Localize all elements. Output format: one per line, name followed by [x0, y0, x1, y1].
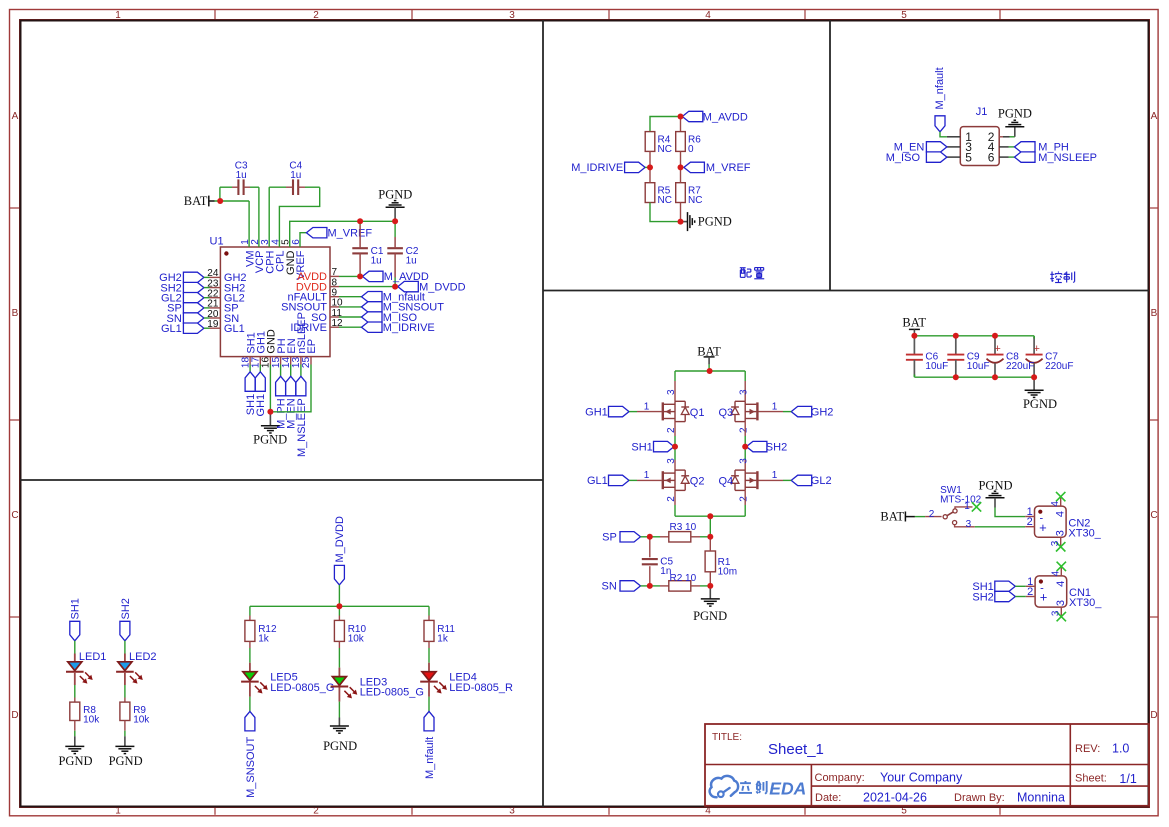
svg-text:REV:: REV: [1075, 743, 1100, 755]
svg-text:+: + [1039, 520, 1047, 535]
svg-text:10k: 10k [83, 715, 100, 726]
svg-text:1: 1 [772, 470, 778, 481]
svg-text:1: 1 [772, 401, 778, 412]
svg-text:R2 10: R2 10 [670, 573, 697, 584]
svg-text:1k: 1k [437, 633, 449, 644]
svg-text:1.0: 1.0 [1112, 742, 1129, 756]
svg-text:R3 10: R3 10 [670, 522, 697, 533]
svg-text:D: D [1150, 710, 1157, 721]
svg-text:PGND: PGND [978, 478, 1012, 492]
svg-text:0: 0 [688, 144, 694, 155]
svg-text:GH2: GH2 [811, 406, 834, 418]
svg-text:6: 6 [988, 150, 995, 164]
svg-text:BAT: BAT [184, 194, 208, 208]
svg-text:PGND: PGND [698, 215, 732, 229]
svg-text:6: 6 [291, 239, 302, 245]
svg-text:M_DVDD: M_DVDD [419, 281, 466, 293]
svg-text:5: 5 [965, 150, 972, 164]
svg-text:M_NSLEEP: M_NSLEEP [1038, 152, 1097, 164]
svg-text:3: 3 [738, 458, 749, 464]
svg-text:NC: NC [658, 144, 672, 155]
svg-text:XT30_: XT30_ [1068, 527, 1101, 539]
svg-text:NC: NC [658, 195, 672, 206]
svg-text:10uF: 10uF [967, 361, 990, 372]
svg-text:B: B [12, 308, 19, 319]
svg-text:GH1: GH1 [255, 394, 267, 417]
svg-text:PGND: PGND [253, 433, 287, 447]
svg-text:3: 3 [1055, 600, 1067, 606]
svg-text:M_SNSOUT: M_SNSOUT [245, 737, 257, 798]
svg-text:M_IDRIVE: M_IDRIVE [571, 162, 623, 174]
svg-text:3: 3 [1050, 540, 1061, 546]
svg-text:+: + [994, 343, 1000, 355]
svg-text:C: C [1150, 510, 1157, 521]
svg-text:M_IDRIVE: M_IDRIVE [383, 322, 435, 334]
svg-text:10uF: 10uF [925, 361, 948, 372]
svg-text:M_NSLEEP: M_NSLEEP [296, 398, 308, 457]
svg-text:Q4: Q4 [719, 476, 734, 488]
svg-text:10m: 10m [718, 567, 737, 578]
svg-text:3: 3 [666, 389, 677, 395]
svg-text:Drawn By:: Drawn By: [954, 792, 1005, 804]
svg-text:LED-0805_G: LED-0805_G [270, 682, 334, 694]
svg-text:4: 4 [1050, 501, 1061, 507]
svg-text:M_DVDD: M_DVDD [334, 516, 346, 563]
svg-text:10k: 10k [133, 715, 150, 726]
svg-text:1u: 1u [236, 170, 247, 181]
svg-text:A: A [12, 111, 19, 122]
svg-text:PGND: PGND [58, 754, 92, 768]
svg-text:D: D [11, 710, 18, 721]
svg-text:PGND: PGND [693, 609, 727, 623]
svg-text:SH2: SH2 [766, 441, 787, 453]
svg-text:2: 2 [738, 496, 749, 502]
svg-text:EP: EP [306, 339, 318, 354]
svg-text:4: 4 [1055, 511, 1067, 517]
svg-text:M_VREF: M_VREF [328, 227, 373, 239]
svg-text:19: 19 [207, 319, 219, 330]
svg-text:Q1: Q1 [690, 407, 705, 419]
svg-text:Sheet_1: Sheet_1 [768, 741, 824, 758]
svg-text:Your Company: Your Company [880, 771, 963, 785]
svg-text:Company:: Company: [815, 772, 865, 784]
svg-text:Q2: Q2 [690, 476, 705, 488]
svg-text:TITLE:: TITLE: [712, 732, 742, 743]
svg-text:M_ISO: M_ISO [886, 152, 921, 164]
svg-text:Date:: Date: [815, 792, 841, 804]
svg-text:LED-0805_R: LED-0805_R [449, 682, 513, 694]
svg-text:SH1: SH1 [70, 598, 82, 619]
svg-text:+: + [1040, 590, 1048, 605]
svg-text:LED-0805_G: LED-0805_G [360, 687, 424, 699]
svg-text:M_AVDD: M_AVDD [703, 111, 748, 123]
svg-text:Sheet:: Sheet: [1075, 773, 1107, 785]
svg-text:GH1: GH1 [585, 406, 608, 418]
svg-text:GL1: GL1 [161, 323, 182, 335]
svg-text:4: 4 [1055, 581, 1067, 587]
svg-text:PGND: PGND [109, 754, 143, 768]
svg-text:3: 3 [738, 389, 749, 395]
svg-text:PGND: PGND [378, 188, 412, 202]
svg-text:2: 2 [929, 509, 935, 520]
svg-text:MTS-102: MTS-102 [940, 495, 982, 506]
svg-text:3: 3 [666, 458, 677, 464]
svg-text:1u: 1u [371, 256, 382, 267]
svg-text:1k: 1k [258, 633, 270, 644]
svg-text:C: C [11, 510, 18, 521]
svg-text:1: 1 [644, 401, 650, 412]
svg-text:220uF: 220uF [1006, 361, 1034, 372]
svg-text:1u: 1u [290, 170, 301, 181]
svg-text:XT30_: XT30_ [1069, 597, 1102, 609]
svg-text:2: 2 [1027, 586, 1033, 598]
svg-text:3: 3 [1051, 610, 1062, 616]
svg-text:PGND: PGND [323, 739, 357, 753]
svg-text:2021-04-26: 2021-04-26 [863, 791, 927, 805]
svg-text:J1: J1 [976, 106, 988, 118]
svg-text:U1: U1 [210, 236, 224, 248]
svg-text:M_nfault: M_nfault [424, 737, 436, 779]
svg-text:SN: SN [602, 581, 617, 593]
svg-text:2: 2 [1027, 516, 1033, 528]
svg-text:1: 1 [964, 501, 970, 512]
svg-text:2: 2 [738, 427, 749, 433]
svg-text:SH2: SH2 [120, 598, 132, 619]
svg-text:SP: SP [602, 532, 617, 544]
svg-text:M_VREF: M_VREF [706, 162, 751, 174]
svg-text:Monnina: Monnina [1017, 791, 1065, 805]
svg-text:1u: 1u [406, 256, 417, 267]
svg-text:PGND: PGND [998, 106, 1032, 120]
svg-text:4: 4 [1051, 570, 1062, 576]
svg-text:NC: NC [688, 195, 702, 206]
svg-text:+: + [1033, 343, 1039, 355]
svg-text:GL2: GL2 [811, 475, 832, 487]
svg-text:Q3: Q3 [719, 407, 734, 419]
svg-text:GL1: GL1 [587, 475, 608, 487]
svg-text:3: 3 [1055, 530, 1067, 536]
svg-text:SH2: SH2 [972, 591, 993, 603]
svg-text:SH1: SH1 [631, 441, 652, 453]
svg-text:1: 1 [644, 470, 650, 481]
svg-text:BAT: BAT [880, 510, 904, 524]
svg-text:220uF: 220uF [1045, 361, 1073, 372]
svg-text:1/1: 1/1 [1119, 772, 1136, 786]
svg-text:BAT: BAT [902, 315, 926, 329]
svg-text:EDA: EDA [769, 778, 806, 798]
svg-text:A: A [1151, 111, 1158, 122]
svg-text:3: 3 [966, 519, 972, 530]
svg-text:M_nfault: M_nfault [934, 67, 946, 109]
svg-text:10k: 10k [348, 633, 365, 644]
svg-text:PGND: PGND [1023, 397, 1057, 411]
svg-text:B: B [1151, 308, 1158, 319]
svg-text:GL1: GL1 [224, 323, 245, 335]
